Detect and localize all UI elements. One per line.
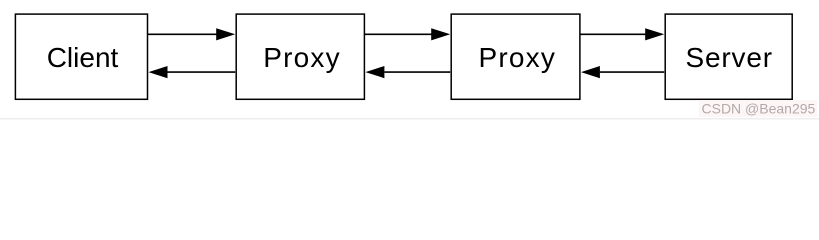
watermark background pill xyxy=(699,100,817,117)
box Server xyxy=(665,14,792,99)
svg-text:Proxy: Proxy xyxy=(479,42,557,73)
svg-text:Proxy: Proxy xyxy=(263,42,341,73)
arrow Proxy1 to Client (bottom, leftward) xyxy=(149,66,236,78)
arrow Proxy2 to Proxy1 (bottom, leftward) xyxy=(365,66,450,78)
svg-text:Client: Client xyxy=(47,42,119,73)
box Client xyxy=(15,14,147,99)
svg-text:Server: Server xyxy=(686,42,773,73)
box Proxy 1 xyxy=(236,14,364,99)
bottom hairline rule xyxy=(0,118,819,119)
arrow Client to Proxy1 (top, rightward) xyxy=(148,28,236,40)
box Proxy 2 xyxy=(451,14,580,99)
arrow Proxy2 to Server (top, rightward) xyxy=(580,28,664,40)
arrow Proxy1 to Proxy2 (top, rightward) xyxy=(364,28,450,40)
arrow Server to Proxy2 (bottom, leftward) xyxy=(581,66,664,78)
svg-text:CSDN @Bean295: CSDN @Bean295 xyxy=(702,100,816,116)
